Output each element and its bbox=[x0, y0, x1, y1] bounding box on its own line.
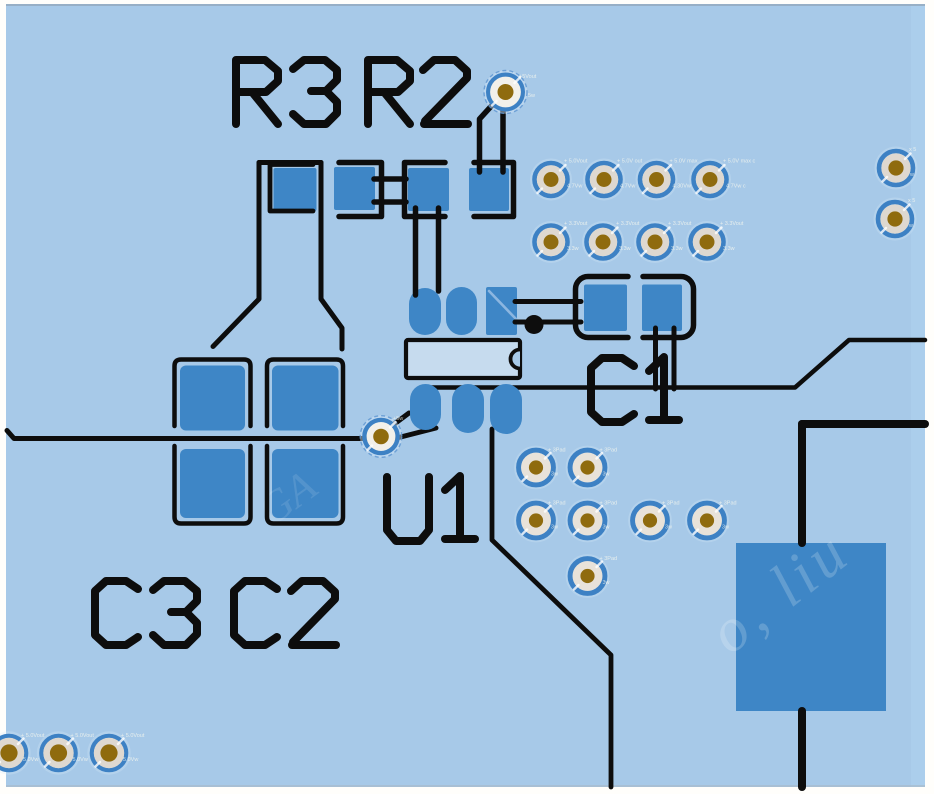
svg-text:+ 3Pad: + 3Pad bbox=[600, 501, 618, 507]
svg-text:+ 5.0V out: + 5.0V out bbox=[617, 159, 643, 165]
svg-text:3w: 3w bbox=[551, 472, 558, 478]
svg-text:+ 3Pad: + 3Pad bbox=[548, 448, 566, 454]
svg-text:w: w bbox=[908, 223, 913, 229]
svg-text:+ 3.3Vout: + 3.3Vout bbox=[564, 221, 588, 227]
svg-text:4.30Vw: 4.30Vw bbox=[673, 184, 691, 190]
svg-text:5w: 5w bbox=[528, 93, 535, 99]
svg-text:3.3w: 3.3w bbox=[671, 246, 683, 252]
svg-text:3w: 3w bbox=[603, 525, 610, 531]
svg-text:+ 3Pad: + 3Pad bbox=[662, 501, 680, 507]
svg-text:+ 5.0Vout: + 5.0Vout bbox=[121, 733, 145, 739]
svg-text:+ 3Pad: + 3Pad bbox=[548, 501, 566, 507]
svg-text:+ 5.0V max c: + 5.0V max c bbox=[723, 159, 756, 165]
svg-text:5.0Vw: 5.0Vw bbox=[23, 757, 38, 763]
svg-text:+ 5.0V max: + 5.0V max bbox=[670, 159, 698, 165]
svg-text:x 5: x 5 bbox=[909, 147, 916, 153]
svg-text:+5w: +5w bbox=[393, 416, 403, 422]
svg-text:5.0Vw: 5.0Vw bbox=[123, 757, 138, 763]
svg-text:4.7Vw: 4.7Vw bbox=[567, 184, 582, 190]
svg-text:+ 3Pad: + 3Pad bbox=[719, 501, 737, 507]
svg-text:4.7Vw c: 4.7Vw c bbox=[726, 184, 746, 190]
svg-text:+ 3.3Vout: + 3.3Vout bbox=[668, 221, 692, 227]
svg-text:4.7Vw: 4.7Vw bbox=[620, 184, 635, 190]
svg-text:+ 3.3Vout: + 3.3Vout bbox=[616, 221, 640, 227]
svg-text:+ 3Pad: + 3Pad bbox=[600, 448, 618, 454]
svg-text:3.3w: 3.3w bbox=[723, 246, 735, 252]
svg-text:+ 3Pad: + 3Pad bbox=[600, 556, 618, 562]
svg-text:3.3w: 3.3w bbox=[567, 246, 579, 252]
svg-text:x 5: x 5 bbox=[908, 198, 915, 204]
svg-text:+ 5.0Vout: + 5.0Vout bbox=[21, 733, 45, 739]
svg-text:+5Vout: +5Vout bbox=[519, 74, 537, 80]
svg-text:+ 5.0Vout: + 5.0Vout bbox=[71, 733, 95, 739]
svg-text:+ 3.3Vout: + 3.3Vout bbox=[720, 221, 744, 227]
svg-text:+ 5.0Vout: + 5.0Vout bbox=[564, 159, 588, 165]
svg-text:3w: 3w bbox=[665, 525, 672, 531]
svg-text:3w: 3w bbox=[603, 580, 610, 586]
svg-text:5.0Vw: 5.0Vw bbox=[73, 757, 88, 763]
svg-text:3w: 3w bbox=[603, 472, 610, 478]
svg-text:3w: 3w bbox=[722, 525, 729, 531]
svg-text:w: w bbox=[909, 172, 914, 178]
svg-text:3w: 3w bbox=[551, 525, 558, 531]
svg-text:3.3w: 3.3w bbox=[619, 246, 631, 252]
